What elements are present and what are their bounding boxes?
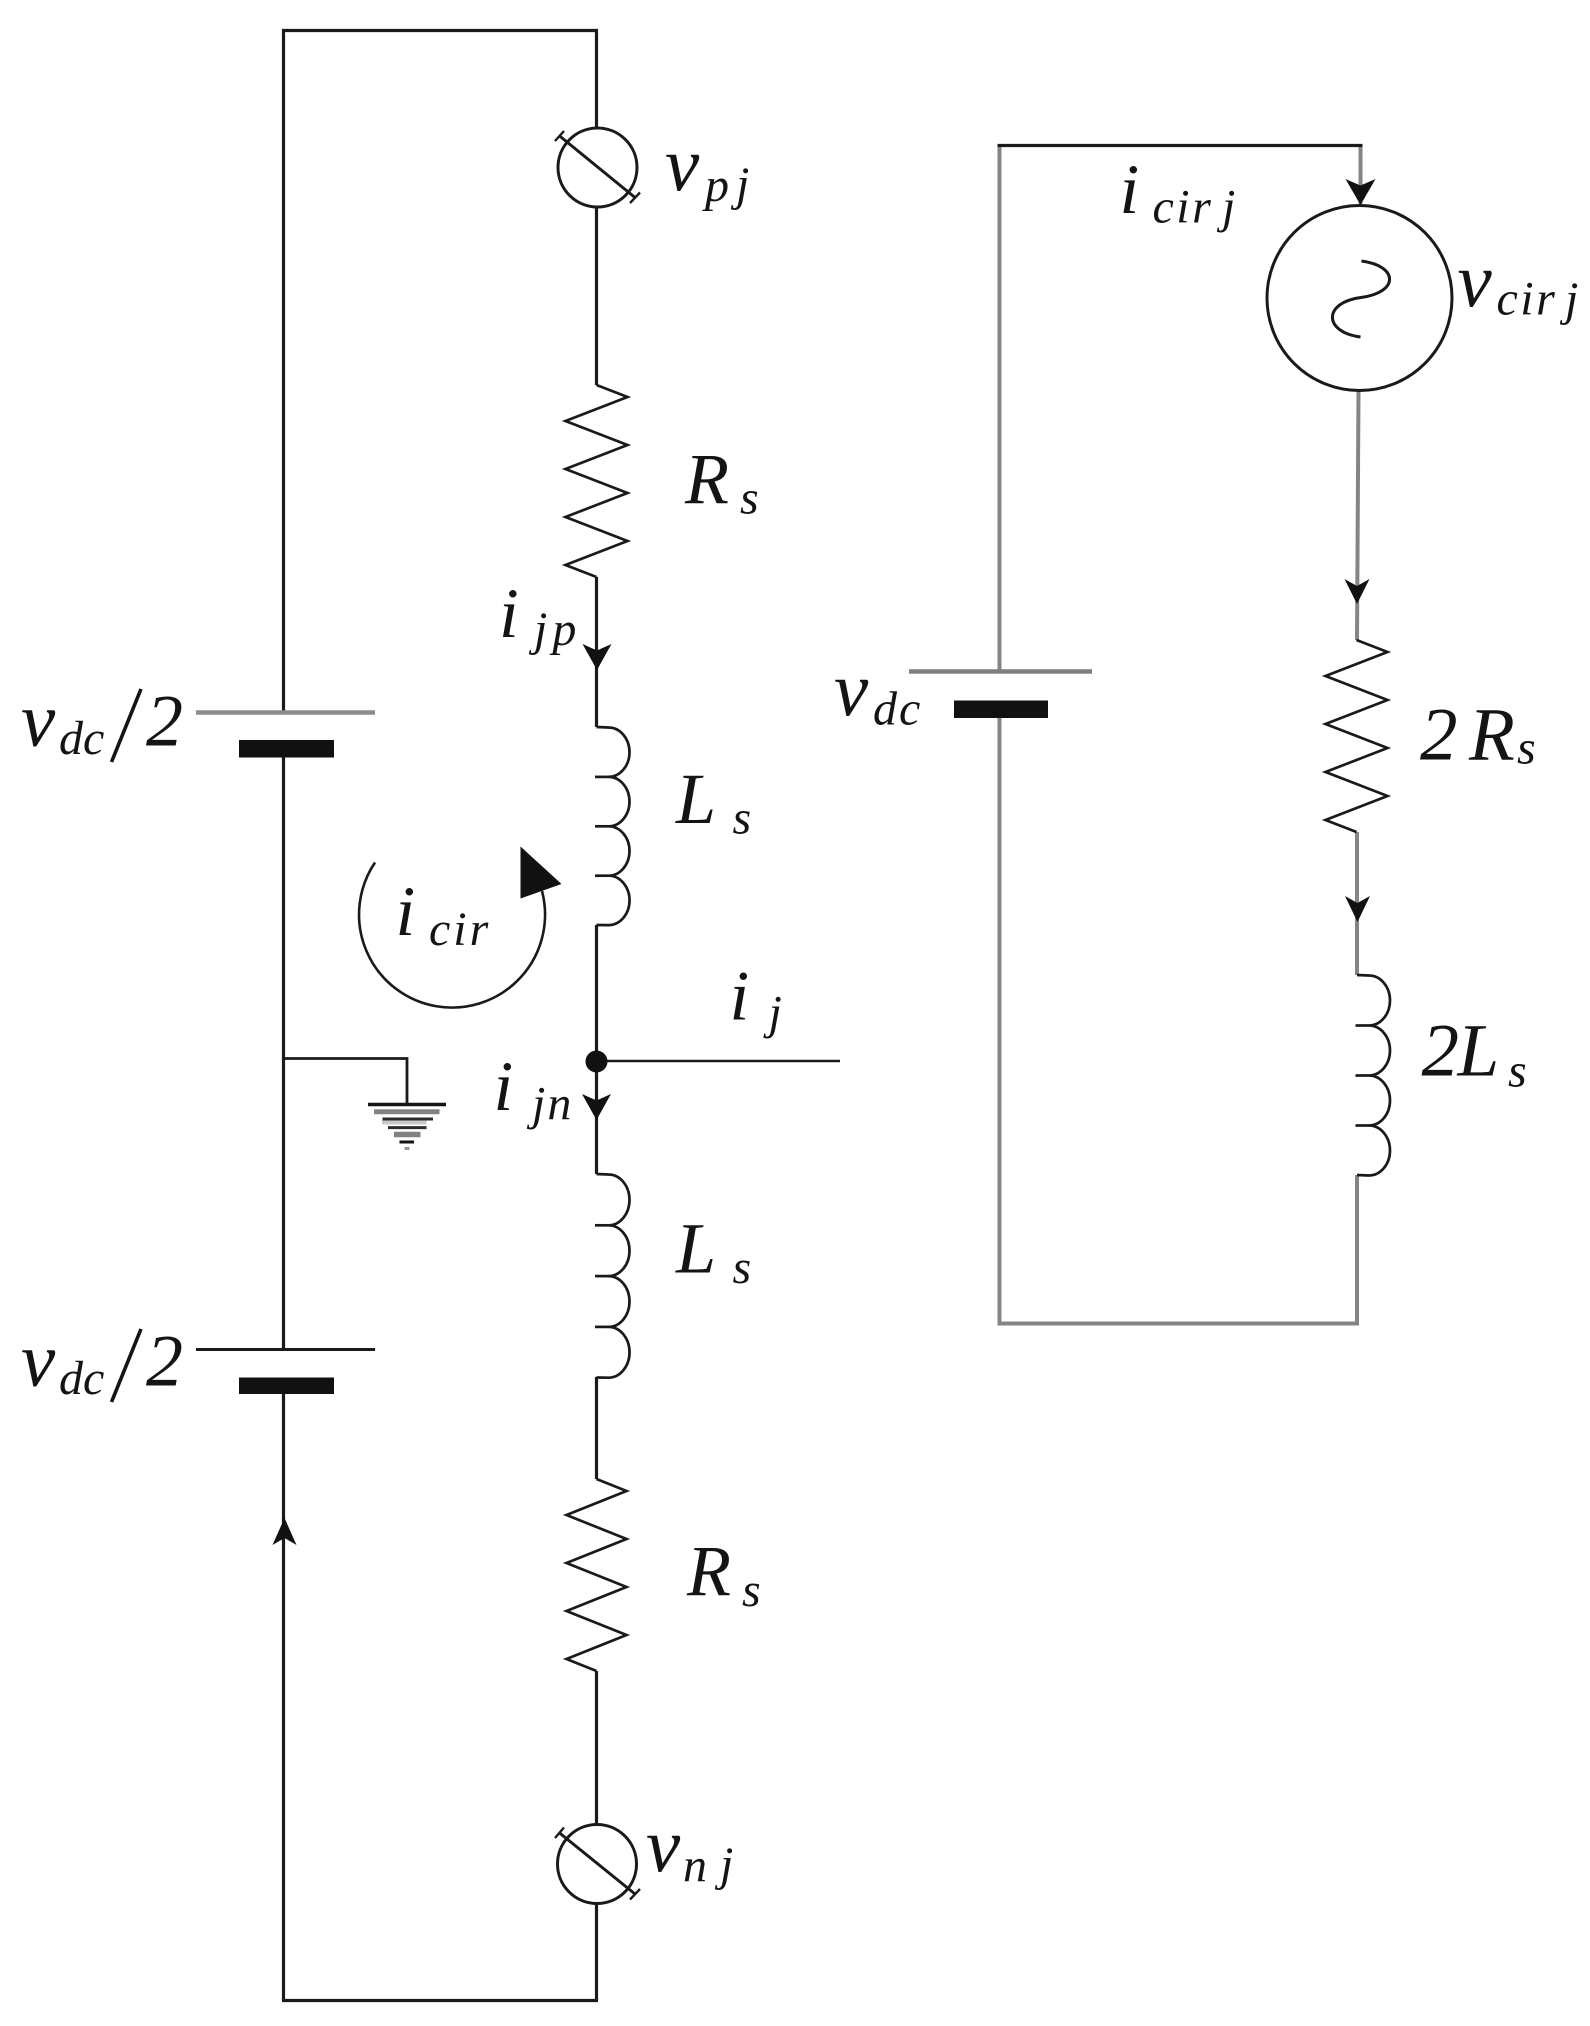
label v_nj [646,1802,733,1893]
label i_j [730,958,782,1040]
svg-text:cir: cir [429,903,491,956]
arrow i_jp (downward on wire) [583,644,612,670]
wire resistor 2R_s to inductor 2L_s (gray, carries arrow) [1355,832,1359,975]
source v_nj (circle with slash) [555,1825,640,1904]
AC source v_cirj (circle) [1267,206,1452,391]
wire right-loop top (black) [998,144,1363,147]
wire right-loop left vertical, lower segment (gray) [998,718,1002,1324]
svg-text:s: s [740,472,759,525]
svg-text:R: R [686,1531,731,1611]
label L_s (lower) [675,1209,751,1295]
wire left vertical, bottom segment (battery B2 to bottom corner) [282,1394,285,2001]
wire corner to AC source v_cirj (gray) [1359,146,1363,204]
wire left vertical, top segment (corner to battery B1) [282,29,285,712]
label v_pj [665,121,749,212]
label R_s (lower) [686,1531,761,1617]
svg-text:s: s [1517,722,1536,775]
svg-text:i: i [396,873,416,951]
svg-text:L: L [1457,1010,1500,1093]
battery B2 (lower v_dc/2): short thick plate [239,1378,334,1395]
svg-text:v: v [21,1317,56,1403]
svg-text:s: s [733,792,752,845]
svg-text:v: v [665,121,700,207]
wire from resistor R_s to inductor L_s (carries arrow i_jp) [595,577,598,727]
svg-text:s: s [742,1564,761,1617]
inductor L_s (upper) [595,727,630,925]
wire left vertical, middle segment (battery B1 to battery B2) [282,757,285,1349]
label v_dc/2 (upper battery) [21,677,183,766]
svg-text:v: v [834,646,869,732]
svg-text:dc: dc [59,712,104,765]
svg-text:L: L [675,1209,716,1289]
svg-text:p: p [702,159,729,212]
svg-text:n: n [683,1840,707,1893]
arrow (upward on left wire, return current) [273,1518,297,1545]
wire from source v_pj to resistor R_s (upper) [595,207,598,385]
svg-text:R: R [1468,694,1515,777]
svg-text:2: 2 [146,1320,183,1402]
svg-text:jn: jn [526,1078,573,1131]
label 2L_s [1422,1010,1527,1098]
arrow i_jn (downward below node) [582,1094,611,1120]
battery B1 (upper v_dc/2): short thick plate [239,740,334,758]
arrow i_cirj (down into AC source) [1346,179,1376,205]
wire stub from top wire down to source v_pj [595,31,598,129]
label 2R_s [1420,694,1536,777]
svg-text:2: 2 [1422,1010,1460,1093]
label i_cirj [1120,151,1236,234]
wire output branch i_j from node [597,1060,841,1063]
wire right-loop bottom (gray) [998,1322,1360,1326]
resistor R_s (lower) [567,1479,627,1671]
label v_dc/2 (lower battery) [21,1317,183,1406]
svg-text:i: i [499,575,519,653]
svg-text:cir: cir [1153,181,1214,234]
svg-text:i: i [494,1048,514,1126]
arrow (down, above resistor 2R_s) [1345,579,1370,604]
battery v_dc: long gray plate [909,669,1092,674]
wire AC source to resistor 2R_s (gray, carries arrow) [1357,391,1359,640]
label v_dc (right battery) [834,646,922,736]
wire right-loop left vertical, upper segment (gray) [998,146,1002,671]
svg-text:2: 2 [146,680,183,762]
inductor 2L_s [1356,975,1391,1176]
arrow (down, above inductor 2L_s) [1345,896,1370,922]
svg-text:i: i [1120,151,1140,229]
source v_pj (circle with slash) [555,128,640,207]
ground (earth symbol) [368,1105,446,1149]
wire from resistor R_s lower to source v_nj [595,1671,598,1825]
resistor R_s (upper) [566,385,628,577]
svg-text:cir: cir [1497,273,1558,326]
label L_s (upper) [675,759,751,845]
AC source v_cirj (sine squiggle) [1332,261,1389,337]
svg-text:dc: dc [873,683,922,736]
inductor L_s (lower) [595,1174,630,1378]
battery v_dc: short thick plate [954,701,1048,719]
battery B2 (lower v_dc/2): long thin plate [196,1348,375,1351]
label i_jp [499,575,581,656]
node (junction dot at i_j tap) [586,1051,608,1073]
resistor 2R_s [1326,640,1388,832]
wire inductor 2L_s to bottom (gray) [1355,1175,1359,1324]
label i_jn [494,1048,574,1131]
label i_cir [396,873,492,956]
circulating-current loop arrow i_cir (arc) [359,863,545,1008]
wire top of left loop [282,29,598,32]
svg-text:v: v [646,1802,681,1888]
svg-text:s: s [1508,1045,1527,1098]
wire bottom of left loop [282,1999,598,2002]
circulating-current loop arrow i_cir (arrowhead) [521,847,562,899]
svg-text:dc: dc [59,1352,104,1405]
wire from source v_nj to bottom wire [595,1904,598,2001]
svg-text:jp: jp [528,603,581,656]
wire from inductor L_s through node to inductor L_s lower [595,925,598,1174]
battery B1 (upper v_dc/2): long gray plate [196,710,375,715]
wire ground tap from left wire [285,1059,407,1105]
svg-text:L: L [675,759,716,839]
svg-text:v: v [1458,237,1493,323]
wire from inductor L_s lower to resistor R_s lower [595,1377,598,1479]
svg-text:i: i [730,958,750,1036]
svg-text:R: R [684,439,729,519]
svg-text:s: s [733,1241,752,1294]
svg-text:v: v [21,677,56,763]
label R_s (upper) [684,439,759,525]
label v_cirj [1458,237,1579,326]
svg-text:2: 2 [1420,694,1458,777]
